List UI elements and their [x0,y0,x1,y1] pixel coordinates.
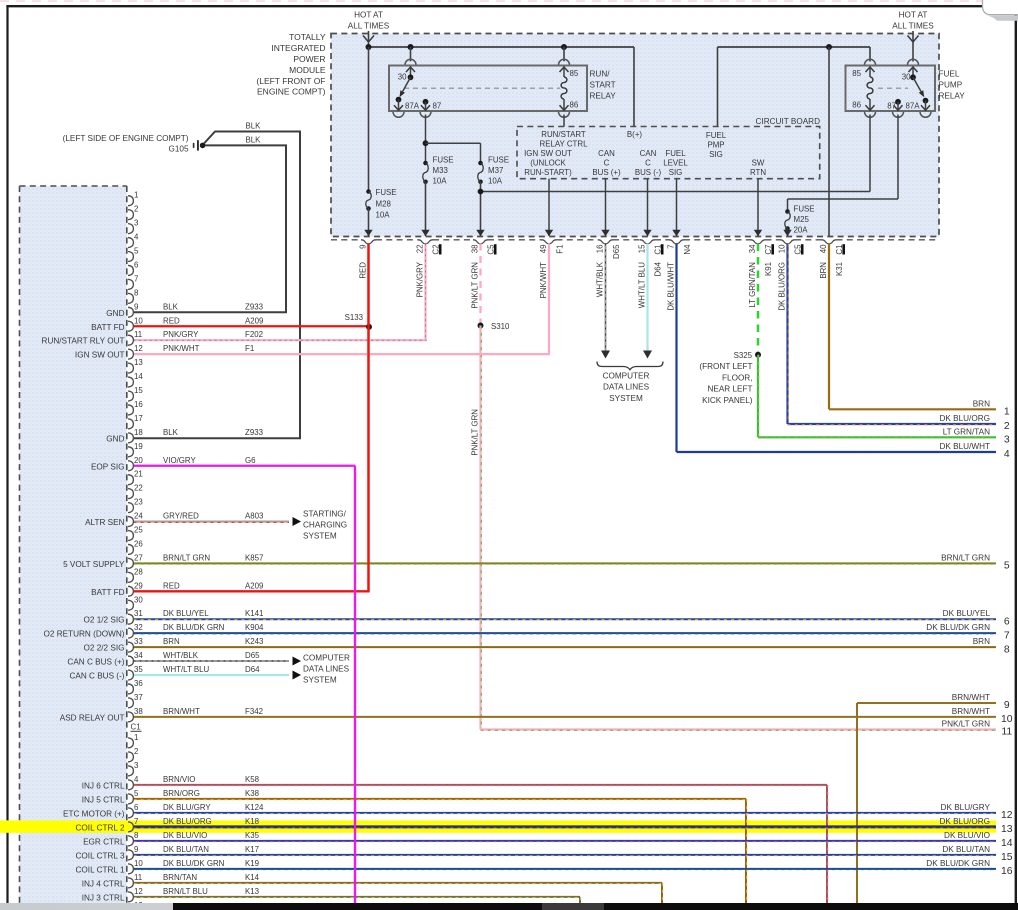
svg-text:A209: A209 [245,581,264,590]
svg-text:(LEFT FRONT OF: (LEFT FRONT OF [256,76,325,86]
svg-text:7: 7 [134,817,138,826]
circuit board box [517,127,820,179]
svg-text:32: 32 [134,623,143,632]
svg-text:9: 9 [134,302,139,311]
svg-text:BLK: BLK [163,428,179,437]
svg-text:16: 16 [1001,866,1013,877]
svg-text:SIG: SIG [709,150,723,159]
svg-text:K35: K35 [245,831,260,840]
splice S325 [755,352,761,358]
svg-text:CAN C BUS (-): CAN C BUS (-) [69,672,124,681]
svg-text:MODULE: MODULE [289,65,326,75]
svg-text:M37: M37 [488,166,503,175]
svg-text:RUN/: RUN/ [590,70,611,79]
svg-text:Z933: Z933 [245,302,264,311]
svg-text:7: 7 [667,245,676,249]
svg-text:15: 15 [134,386,143,395]
svg-text:Z933: Z933 [245,428,264,437]
PCM connector C2 pin 23 [128,503,133,513]
svg-text:ALL TIMES: ALL TIMES [348,22,390,31]
svg-text:DK BLU/DK GRN: DK BLU/DK GRN [926,859,990,868]
PCM connector C2 pin 18 [128,433,133,443]
wire BRN K243 PCM 33 to right edge row 8 [134,646,997,648]
svg-text:SYSTEM: SYSTEM [303,676,337,685]
PCM connector C2 pin 22 [128,489,133,499]
svg-text:M28: M28 [376,199,392,208]
PCM connector C1 pin 5 [128,794,133,804]
svg-text:BRN/WHT: BRN/WHT [952,693,990,702]
svg-text:8: 8 [134,831,139,840]
svg-text:RED: RED [163,581,180,590]
svg-text:K904: K904 [245,623,264,632]
fuse M28 10A [368,47,370,192]
svg-text:(UNLOCK: (UNLOCK [530,159,566,168]
svg-text:5: 5 [134,789,139,798]
wire PNK/LT GRN TIPM 38 to S310 [479,244,481,326]
svg-text:BATT FD: BATT FD [91,588,124,597]
svg-text:FLOOR,: FLOOR, [722,373,752,382]
svg-text:2: 2 [134,747,138,756]
svg-text:EOP SIG: EOP SIG [91,462,125,471]
PCM connector C2 pin 26 [128,544,133,554]
wire TIPM B+ vertical to pin 40 [828,47,830,236]
svg-text:LEVEL: LEVEL [663,159,688,168]
run/start relay coil [563,47,565,61]
PCM connector C2 pin 33 [128,642,133,652]
svg-text:D65: D65 [612,244,621,259]
svg-text:11: 11 [1001,727,1012,738]
svg-text:14: 14 [1001,838,1013,849]
PCM connector C2 pin 34 [128,656,133,666]
svg-text:PNK/WHT: PNK/WHT [163,344,200,353]
svg-text:2: 2 [1004,421,1010,432]
svg-text:FUSE: FUSE [488,156,509,165]
svg-text:1: 1 [134,191,138,200]
svg-text:4: 4 [134,233,139,242]
highlight band COIL CTRL 2 circuit [0,820,996,832]
PCM connector C2 pin 29 [128,586,133,596]
PCM connector C1 pin 11 [128,878,133,888]
svg-text:(LEFT SIDE OF ENGINE COMPT): (LEFT SIDE OF ENGINE COMPT) [63,134,189,143]
PCM connector C2 pin 14 [128,377,133,387]
TIPM module box [331,34,939,237]
wire BRN/LT BLU K13 PCM C1-12 down page [134,896,581,898]
svg-text:12: 12 [134,344,143,353]
svg-text:10: 10 [134,316,143,325]
PCM connector C1 pin 8 [128,836,133,846]
PCM connector C1 pin 1 [128,738,133,748]
wire BRN/TAN K14 PCM C1-11 down page [134,882,663,884]
PCM connector C2 pin 32 [128,628,133,638]
svg-text:F342: F342 [245,707,263,716]
svg-text:START: START [590,81,616,90]
PCM connector C2 pin 4 [128,238,133,248]
svg-text:INJ 5 CTRL: INJ 5 CTRL [82,795,125,804]
svg-text:25: 25 [134,526,143,535]
svg-text:13: 13 [134,358,143,367]
svg-text:WHT/BLK: WHT/BLK [163,651,199,660]
svg-text:F1: F1 [245,344,254,353]
svg-text:RTN: RTN [750,168,766,177]
wire WHT/LT BLU D64 PCM 35 to computer data lines [134,674,290,676]
svg-text:36: 36 [134,679,143,688]
svg-text:(FRONT LEFT: (FRONT LEFT [699,362,752,371]
run/start relay box [389,66,587,112]
wire PNK/GRY F202 TIPM 22 to PCM 11 [424,244,426,341]
svg-text:DK BLU/ORG: DK BLU/ORG [163,817,212,826]
wire PNK/WHT F1 TIPM 49 to PCM 12 [548,244,550,355]
battery feed bus left [369,46,635,48]
svg-text:HOT AT: HOT AT [899,11,928,20]
svg-text:6: 6 [1004,616,1010,627]
svg-text:22: 22 [416,245,425,254]
svg-text:10A: 10A [376,211,391,220]
svg-text:LT GRN/TAN: LT GRN/TAN [748,262,757,308]
svg-text:BLK: BLK [163,302,179,311]
svg-text:B(+): B(+) [627,130,642,139]
decorative top edge dashes [0,0,1018,2]
PCM connector C2 pin 20 [128,461,133,471]
wire BLK ground upper to PCM 18 [134,132,301,439]
svg-text:K31: K31 [835,262,844,276]
svg-text:13: 13 [1001,824,1013,835]
svg-text:O2 1/2 SIG: O2 1/2 SIG [84,616,125,625]
svg-text:G105: G105 [168,144,188,153]
PCM connector C2 pin 9 [128,307,133,317]
svg-text:PNK/LT GRN: PNK/LT GRN [942,720,990,729]
run/start relay pin 87 [423,99,429,105]
PCM connector C1 pin 6 [128,808,133,818]
svg-text:WHT/LT BLU: WHT/LT BLU [638,262,647,308]
wire BRN K31 TIPM 40 to right edge row 1 [828,244,830,410]
svg-text:5: 5 [1004,561,1010,572]
svg-text:2: 2 [134,205,138,214]
svg-text:DK BLU/ORG: DK BLU/ORG [778,262,787,311]
svg-text:20: 20 [134,456,143,465]
svg-text:17: 17 [134,414,143,423]
svg-text:14: 14 [134,372,143,381]
svg-text:SYSTEM: SYSTEM [303,532,337,541]
svg-text:9: 9 [1004,700,1010,711]
svg-text:DK BLU/VIO: DK BLU/VIO [944,831,990,840]
PCM connector C2 pin 35 [128,670,133,680]
wire DK BLU/ORG K18 PCM C1-7 to right edge row 13 highlighted [134,825,997,828]
svg-text:8: 8 [134,288,139,297]
svg-text:IGN SW OUT: IGN SW OUT [75,351,125,360]
svg-text:K38: K38 [245,789,260,798]
svg-text:DK BLU/WHT: DK BLU/WHT [667,262,676,311]
PCM connector C1 pin 2 [128,752,133,762]
PCM connector C2 pin 5 [128,252,133,262]
wire LT GRN/TAN K91 TIPM 34 to S325 [757,244,760,355]
svg-text:DK BLU/DK GRN: DK BLU/DK GRN [163,623,225,632]
fuel pump relay switch blade [913,77,921,91]
svg-text:ALTR SEN: ALTR SEN [85,518,125,527]
svg-text:D65: D65 [245,651,260,660]
svg-text:BRN: BRN [973,637,990,646]
svg-text:BRN/WHT: BRN/WHT [163,707,200,716]
svg-text:CAN: CAN [640,149,657,158]
PCM connector C2 pin 38 [128,712,133,722]
svg-text:K243: K243 [245,637,264,646]
PCM connector C2 pin 8 [128,293,133,303]
bottom taskbar [0,903,1018,910]
fuel pump relay pin 30 [908,59,919,64]
svg-text:30: 30 [398,73,407,82]
svg-text:22: 22 [134,484,143,493]
PCM connector C1 pin 9 [128,850,133,860]
wire RED A209 TIPM pin 9 to S133 to PCM 10 and 29 [367,244,369,592]
PCM connector C2 pin 17 [128,419,133,429]
svg-text:S310: S310 [491,322,510,331]
PCM connector C2 pin 2 [128,210,133,220]
svg-text:RED: RED [163,316,180,325]
svg-text:CHARGING: CHARGING [303,521,347,530]
svg-text:5 VOLT SUPPLY: 5 VOLT SUPPLY [63,560,125,569]
svg-text:G6: G6 [245,456,256,465]
svg-text:DK BLU/DK GRN: DK BLU/DK GRN [163,859,225,868]
svg-text:K14: K14 [245,873,260,882]
svg-text:4: 4 [1004,449,1010,460]
svg-text:BRN/WHT: BRN/WHT [952,707,990,716]
svg-text:1: 1 [134,733,138,742]
PCM connector C2 pin 16 [128,405,133,415]
wire WHT/LT BLU D64 CAN bus - from TIPM 15 [646,244,648,352]
svg-text:3: 3 [1004,435,1010,446]
svg-text:38: 38 [134,707,143,716]
PCM connector C2 pin 7 [128,279,133,289]
svg-text:K17: K17 [245,845,259,854]
svg-text:87: 87 [433,102,442,111]
svg-text:BATT FD: BATT FD [91,323,124,332]
splice S310 [478,323,484,329]
run/start relay switch blade [403,77,411,91]
wire DK BLU/VIO K35 PCM C1-8 to right edge row 14 [134,840,997,842]
wire DK BLU/TAN K17 PCM C1-9 to right edge row 15 [134,854,997,856]
svg-text:19: 19 [134,442,143,451]
svg-text:10A: 10A [433,176,448,185]
svg-text:3: 3 [134,219,139,228]
svg-text:A209: A209 [245,316,264,325]
svg-text:COIL CTRL 1: COIL CTRL 1 [76,865,125,874]
svg-text:BRN/TAN: BRN/TAN [163,873,197,882]
wire DK BLU/DK GRN K19 PCM C1-10 to right edge row 16 [134,868,997,870]
svg-text:DK BLU/VIO: DK BLU/VIO [163,831,207,840]
svg-text:FUSE: FUSE [433,156,454,165]
svg-text:BRN/LT GRN: BRN/LT GRN [941,553,990,562]
PCM connector module box (left) [20,186,127,910]
svg-text:BUS (+): BUS (+) [592,168,621,177]
svg-text:33: 33 [134,637,143,646]
wire fuel relay 87 to fuse M25 [897,115,899,200]
svg-text:24: 24 [134,512,143,521]
PCM connector C2 pin 11 [128,335,133,345]
PCM connector C2 pin 10 [128,321,133,331]
svg-text:BRN: BRN [973,399,990,408]
svg-text:C: C [645,159,651,168]
svg-text:WHT/LT BLU: WHT/LT BLU [163,665,209,674]
svg-text:INJ 3 CTRL: INJ 3 CTRL [82,893,125,902]
svg-text:F202: F202 [245,330,263,339]
svg-text:BUS (-): BUS (-) [635,168,662,177]
svg-text:RED: RED [359,262,368,279]
svg-text:S133: S133 [345,313,364,322]
svg-text:87A: 87A [905,102,920,111]
wire DK BLU/ORG TIPM 10 to right edge row 2 [786,244,788,425]
svg-text:30: 30 [902,73,911,82]
svg-text:DK BLU/GRY: DK BLU/GRY [941,803,991,812]
svg-text:87: 87 [887,102,896,111]
svg-text:38: 38 [471,244,480,253]
svg-text:S325: S325 [734,351,753,360]
svg-text:DK BLU/WHT: DK BLU/WHT [940,442,991,451]
svg-text:49: 49 [539,244,548,253]
svg-text:PMP: PMP [707,141,724,150]
svg-text:DK BLU/ORG: DK BLU/ORG [939,817,990,826]
svg-text:C1: C1 [131,723,141,732]
svg-text:COMPUTER: COMPUTER [303,654,350,663]
svg-text:POWER: POWER [293,54,325,64]
PCM connector C2 pin 31 [128,614,133,624]
PCM connector C2 pin 27 [128,558,133,568]
fuel pump relay pin 87 [895,99,901,105]
svg-text:O2 RETURN (DOWN): O2 RETURN (DOWN) [44,630,125,639]
svg-text:16: 16 [596,244,605,253]
svg-text:SIG: SIG [669,168,683,177]
PCM connector C2 pin 1 [128,196,133,206]
svg-text:BRN: BRN [163,637,180,646]
svg-text:INJ 6 CTRL: INJ 6 CTRL [82,781,125,790]
PCM connector C2 pin 25 [128,531,133,541]
fuel pump relay pin 87A [923,98,929,104]
svg-text:INJ 4 CTRL: INJ 4 CTRL [82,879,125,888]
svg-text:10: 10 [778,244,787,253]
svg-text:DK BLU/YEL: DK BLU/YEL [943,609,991,618]
svg-text:15: 15 [638,244,647,253]
svg-text:28: 28 [134,567,143,576]
svg-text:85: 85 [570,69,579,78]
PCM connector C2 pin 37 [128,698,133,708]
svg-text:16: 16 [134,400,143,409]
wire WHT/BLK D65 PCM 34 to computer data lines [134,660,290,662]
svg-text:K141: K141 [245,609,263,618]
wire VIO/GRY G6 PCM 20 down page [134,465,356,467]
PCM connector C2 pin 12 [128,349,133,359]
svg-text:9: 9 [134,845,139,854]
svg-text:PNK/GRY: PNK/GRY [416,261,425,297]
svg-text:A803: A803 [245,512,264,521]
svg-text:86: 86 [570,101,579,110]
svg-text:10: 10 [134,859,143,868]
svg-text:NEAR LEFT: NEAR LEFT [707,385,752,394]
svg-text:35: 35 [134,665,143,674]
svg-text:85: 85 [852,69,861,78]
svg-text:11: 11 [134,330,142,339]
svg-text:RUN/START: RUN/START [541,130,586,139]
svg-text:RUN/START RLY OUT: RUN/START RLY OUT [42,337,125,346]
run/start relay pin 30 [410,47,412,61]
svg-text:D64: D64 [245,665,260,674]
PCM connector C2 pin 3 [128,224,133,234]
svg-text:C: C [604,159,610,168]
PCM connector C1 pin 10 [128,864,133,874]
svg-text:M33: M33 [433,166,449,175]
run/start relay pin 87A [396,97,402,103]
svg-text:8: 8 [1004,644,1010,655]
svg-text:34: 34 [134,651,143,660]
svg-text:K13: K13 [245,887,260,896]
svg-text:DK BLU/YEL: DK BLU/YEL [163,609,209,618]
battery feed wire left into TIPM [368,31,370,47]
svg-text:O2 2/2 SIG: O2 2/2 SIG [84,644,125,653]
wire BRN/WHT F342 PCM 38 to right edge row 10 [134,716,997,718]
svg-text:10: 10 [1001,714,1013,725]
PCM connector C2 pin 19 [128,447,133,457]
wire PNK/LT GRN S310 to right edge row 11 [479,326,481,730]
svg-text:K124: K124 [245,803,264,812]
svg-text:K58: K58 [245,775,260,784]
fuse M33 10A [423,161,428,166]
svg-text:ASD RELAY OUT: ASD RELAY OUT [60,713,125,722]
page curl tab top right [983,0,1018,15]
svg-text:RUN-START): RUN-START) [524,168,572,177]
svg-text:INTEGRATED: INTEGRATED [271,43,325,53]
svg-text:29: 29 [134,581,143,590]
svg-text:PNK/LT GRN: PNK/LT GRN [471,409,480,456]
svg-text:D64: D64 [654,261,663,276]
svg-text:CAN C BUS (+): CAN C BUS (+) [67,658,124,667]
svg-text:LT GRN/TAN: LT GRN/TAN [943,427,990,436]
svg-text:N4: N4 [683,244,692,255]
TIPM connector edge [331,239,361,241]
wire BRN/WHT right edge row 9 down page [857,702,996,704]
circuit board output wires to TIPM connector [548,179,550,236]
wire DK BLU/DK GRN K904 PCM 32 to right edge row 7 [134,632,997,634]
svg-text:KICK PANEL): KICK PANEL) [702,396,753,405]
svg-text:K857: K857 [245,553,263,562]
svg-text:PNK/LT GRN: PNK/LT GRN [471,262,480,309]
svg-text:34: 34 [748,244,757,253]
svg-text:6: 6 [134,803,139,812]
svg-text:12: 12 [134,887,143,896]
svg-text:RELAY: RELAY [590,92,617,101]
svg-text:BLK: BLK [246,122,262,131]
svg-text:WHT/BLK: WHT/BLK [596,261,605,297]
svg-text:RELAY CTRL: RELAY CTRL [540,140,589,149]
svg-text:DK BLU/TAN: DK BLU/TAN [942,845,990,854]
PCM connector C2 pin 13 [128,363,133,373]
svg-text:ALL TIMES: ALL TIMES [892,22,934,31]
svg-text:COMPUTER: COMPUTER [603,372,650,381]
svg-text:30: 30 [134,595,143,604]
wire BRN/VIO K58 PCM C1-4 down page [134,784,828,786]
svg-text:F1: F1 [556,245,565,254]
svg-text:ETC MOTOR (+): ETC MOTOR (+) [63,809,125,818]
svg-text:86: 86 [852,101,861,110]
svg-text:TOTALLY: TOTALLY [289,32,326,42]
svg-text:COIL CTRL 2: COIL CTRL 2 [76,823,125,832]
wire DK BLU/WHT N4 TIPM 7 to right edge row 4 [675,244,677,453]
fuel pump relay box [846,66,936,112]
svg-text:3: 3 [134,761,139,770]
svg-text:9: 9 [359,244,368,249]
svg-text:DK BLU/TAN: DK BLU/TAN [163,845,209,854]
svg-text:FUSE: FUSE [794,205,815,214]
wire relay 86 to circuit board [563,115,565,127]
svg-text:IGN SW OUT: IGN SW OUT [524,149,572,158]
svg-text:1: 1 [1004,407,1010,418]
svg-text:37: 37 [134,693,143,702]
